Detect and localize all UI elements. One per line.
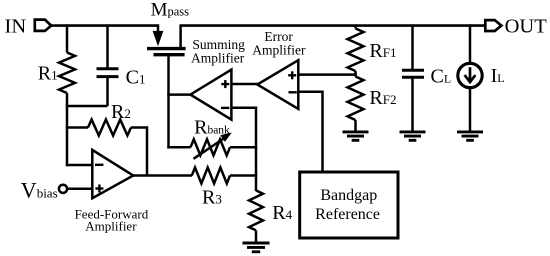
svg-text:IL: IL [491, 65, 505, 87]
svg-text:IN: IN [5, 15, 27, 37]
svg-text:R1: R1 [38, 63, 58, 85]
wire RF2 bottom [354, 120, 357, 132]
U1 plus sign [221, 83, 229, 85]
transistor M_pass gate bar [154, 53, 185, 56]
resistor RF1 [348, 29, 364, 72]
wire Rbank left lead [167, 146, 190, 149]
bandgap reference box [300, 172, 398, 238]
svg-text:Mpass: Mpass [151, 0, 190, 20]
transistor M_pass top bar [147, 47, 186, 50]
wire RF1-RF2 node [354, 71, 357, 77]
op-amp U1 summing [190, 70, 231, 120]
U3 plus sign [95, 187, 103, 189]
current source IL [458, 63, 482, 87]
wire U1 inverting input / node B [231, 108, 256, 191]
wire R2 right lead [131, 128, 147, 176]
wire U2 inverting input to bandgap [298, 92, 322, 171]
svg-text:Rbank: Rbank [194, 116, 230, 138]
transistor M_pass source arrow [157, 26, 160, 33]
capacitor CL [402, 69, 424, 72]
svg-text:R2: R2 [111, 101, 131, 123]
resistor Rbank [191, 139, 231, 155]
wire IL bottom [469, 88, 472, 132]
wire summing output [167, 93, 191, 96]
svg-text:Bandgap: Bandgap [320, 187, 377, 204]
wire M_pass drain [179, 24, 182, 48]
op-amp U2 error [257, 60, 298, 109]
svg-text:Amplifier: Amplifier [252, 42, 306, 57]
resistor R1 [59, 53, 75, 94]
resistor R3 [192, 168, 230, 184]
wire R1 bottom / node A [66, 93, 69, 166]
svg-text:Vbias: Vbias [21, 177, 58, 202]
wire CL bottom [411, 77, 414, 132]
port IN [35, 20, 51, 31]
wire Rbank right lead [230, 146, 257, 149]
wire input rail [51, 24, 160, 27]
ground IL [457, 130, 483, 133]
ground R4 [243, 242, 270, 245]
U1 minus sign [221, 107, 229, 109]
wire R2 left lead [66, 126, 88, 129]
wire U3 inverting input [66, 164, 93, 167]
svg-text:Reference: Reference [315, 206, 380, 223]
wire C1 bottom [106, 77, 109, 106]
wire R1-C1 junction [66, 105, 108, 108]
svg-text:OUT: OUT [505, 15, 548, 37]
U3 minus sign [95, 164, 103, 166]
wire IL top [469, 24, 472, 63]
wire R3 right lead [230, 174, 257, 177]
Rbank adjust arrow [194, 137, 227, 159]
U2 plus sign [288, 74, 296, 76]
wire C1 top [106, 24, 109, 68]
svg-text:RF2: RF2 [369, 87, 396, 109]
wire RF1 top [354, 24, 357, 28]
wire R1 top [66, 24, 69, 52]
ground CL [400, 130, 426, 133]
resistor RF2 [348, 77, 364, 121]
terminal Vbias [59, 185, 67, 193]
resistor R4 [249, 190, 263, 230]
svg-text:C1: C1 [126, 67, 146, 89]
resistor R2 [88, 120, 131, 136]
wire U3 output [133, 174, 192, 177]
capacitor C1 [97, 67, 119, 70]
wire gate node [167, 56, 170, 148]
svg-text:R4: R4 [272, 202, 292, 224]
wire Vbias to U3 plus input [67, 188, 92, 191]
svg-text:CL: CL [431, 65, 452, 87]
svg-text:R3: R3 [202, 186, 222, 208]
wire output rail [181, 24, 485, 27]
ground RF2 [343, 130, 369, 133]
U2 minus sign [289, 91, 297, 93]
svg-text:Amplifier: Amplifier [85, 219, 137, 234]
svg-text:RF1: RF1 [369, 40, 396, 62]
port OUT [485, 20, 501, 31]
wire U1 noninverting input to error amp output [231, 83, 258, 86]
svg-text:Amplifier: Amplifier [191, 51, 245, 66]
wire R4 bottom [255, 230, 258, 243]
wire CL top [411, 24, 414, 70]
op-amp U3 feed-forward [92, 150, 133, 198]
wire U2 noninverting input to feedback node [298, 73, 356, 76]
